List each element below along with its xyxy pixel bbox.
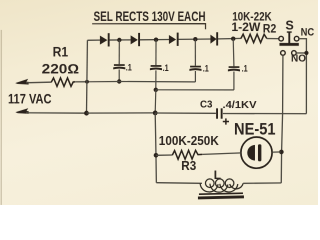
wire left vertical [85,40,88,113]
capacitor .1 (fourth) [228,39,240,90]
svg-text:R1: R1 [53,45,69,60]
wire top rail segment A [87,39,100,41]
C3 polarity plus sign [223,118,229,124]
junction dot lamp right [279,150,284,155]
diode D3 [169,33,179,46]
node N1 junction dot [117,38,121,42]
junction dot cap1 bottom [117,79,121,83]
junction dot rail1 at left vertical [85,80,89,84]
wire coil to right vertical [243,182,281,184]
svg-text:1-2W: 1-2W [231,20,261,34]
wire R2 to switch [267,38,279,40]
capacitor C3 [216,108,223,118]
wire NC contact to right rail [299,39,307,114]
wire C3 to right rail [223,113,307,115]
svg-text:220Ω: 220Ω [42,61,80,76]
switch S pushbutton [279,31,299,45]
svg-text:100K-250K: 100K-250K [159,133,220,148]
wire top rail segment B [109,39,130,41]
svg-text:L: L [214,168,221,182]
svg-text:R3: R3 [181,158,196,173]
node N4 junction dot [231,37,235,41]
wire rail2 cap2 to cap4 [156,89,234,91]
capacitor .1 (first) [113,40,125,82]
node A junction dot [153,110,158,115]
node N2 junction dot [154,37,158,41]
wire top rail segment D [178,38,210,40]
svg-text:SEL RECTS 130V EACH: SEL RECTS 130V EACH [94,8,206,24]
capacitor .1 (third) [189,39,201,82]
svg-text:117 VAC: 117 VAC [8,90,52,106]
switch NO contacts row [281,51,297,56]
wire rail1 R1 to cap1 to cap3 [87,80,195,82]
junction dot R3 left [154,153,159,158]
wire node A down left vertical to R3 [155,113,156,183]
junction dot lower left [84,111,89,116]
svg-text:NO: NO [291,53,306,64]
svg-text:.1: .1 [126,63,132,73]
wire cap2 bottom down to node A [154,90,157,113]
diode D1 [100,33,110,46]
diode D4 [210,32,218,45]
inductor core bars [198,193,244,198]
svg-text:NC: NC [301,26,315,38]
junction dot right rail [304,51,308,55]
wire top rail segment E [218,37,241,40]
wire lower rail to node A [86,112,155,114]
svg-text:S: S [285,19,293,33]
inductor L coil [200,179,243,192]
svg-text:C3: C3 [200,98,213,110]
resistor R1 with input wire [15,78,87,86]
wire NO right contact to right rail [296,52,306,54]
label SEL RECTS 130V EACH [92,8,205,29]
svg-text:R2: R2 [263,21,277,35]
capacitor .1 (second) [150,40,162,90]
wire top rail segment C [140,38,169,40]
wire NO left contact vertical [281,55,283,183]
resistor R3 [156,150,241,159]
resistor R2 [241,34,267,42]
svg-text:NE-51: NE-51 [234,119,276,138]
svg-text:.4/1KV: .4/1KV [222,99,256,111]
diode D2 [131,33,140,46]
svg-text:.1: .1 [242,64,248,74]
wire bottom left to coil [156,182,202,185]
node N3 junction dot [193,37,197,41]
svg-text:.1: .1 [203,63,209,73]
neon lamp NE-51 [241,137,281,168]
svg-text:.1: .1 [163,63,169,73]
wire node A to C3 [155,112,216,114]
wire lower input with arrow [15,108,86,114]
junction dot cap2 bottom [154,88,158,92]
